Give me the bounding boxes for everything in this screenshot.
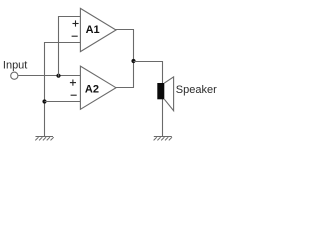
- input terminal: [11, 72, 18, 79]
- junction A2 - tap: [42, 99, 46, 103]
- svg-text:A1: A1: [86, 24, 100, 36]
- wire output bus vertical: [133, 30, 135, 88]
- wire A2 - horizontal: [45, 101, 81, 103]
- junction input tap to A1: [56, 74, 60, 78]
- op-amp A1: [80, 8, 116, 51]
- wire junction to speaker drop: [134, 61, 163, 63]
- svg-text:Speaker: Speaker: [176, 84, 217, 96]
- wire A2 output: [116, 87, 135, 89]
- svg-text:Input: Input: [3, 59, 27, 71]
- junction outputs: [131, 59, 135, 63]
- wire A1 output: [116, 29, 135, 31]
- pin label A2 +: [70, 80, 76, 86]
- pin label A2 -: [71, 94, 77, 96]
- wire speaker drop vertical: [162, 61, 164, 137]
- ground left: [35, 137, 53, 141]
- wire A1 - horizontal: [44, 42, 81, 44]
- speaker LS1: [157, 77, 173, 111]
- ground right: [154, 137, 172, 141]
- op-amp A2: [80, 66, 116, 109]
- wire input to A2 noninverting input: [18, 75, 80, 77]
- wire inverting bus vertical to ground: [44, 42, 46, 137]
- svg-text:A2: A2: [85, 84, 99, 96]
- pin label A1 +: [73, 20, 79, 26]
- wire A1 + horizontal: [58, 16, 81, 18]
- wire A1 + vertical riser: [58, 16, 60, 77]
- pin label A1 -: [72, 35, 78, 37]
